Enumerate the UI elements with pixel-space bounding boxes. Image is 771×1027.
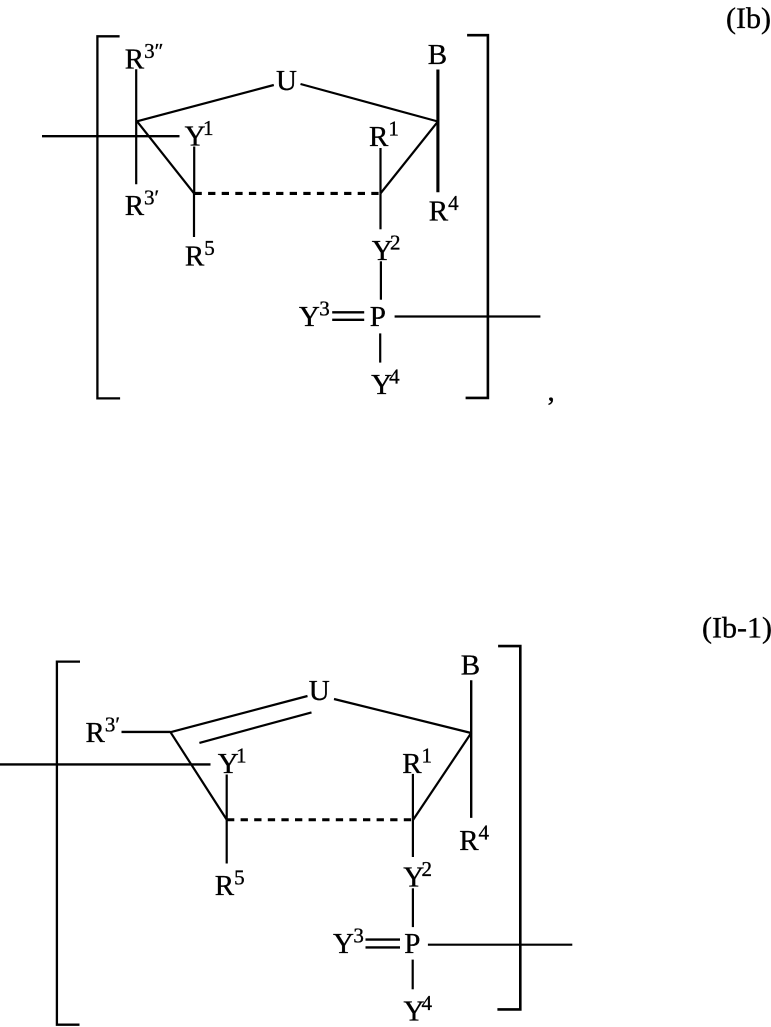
bracket right of (Ib-1) — [497, 646, 520, 1009]
bond R3'-C3alpha (Ib-1) — [122, 731, 171, 733]
svg-text:U: U — [276, 65, 297, 97]
bond Y2-P (Ib-1) — [412, 888, 414, 927]
bond C1'-C2' (Ib-1) — [413, 733, 471, 820]
bond R1-C2' (Ib) — [379, 148, 381, 193]
bond P-Y4 (Ib-1) — [412, 960, 414, 990]
bond Y1-C3' (Ib) — [193, 147, 195, 194]
bond Y2-P (Ib) — [380, 261, 382, 299]
double bond C3alpha=U outer line (Ib-1) — [171, 696, 308, 732]
bond B-C1'-R4 vertical (Ib-1) — [470, 680, 472, 818]
bond U-C1' (Ib) — [301, 84, 438, 122]
bond C2'-Y2 (Ib-1) — [412, 820, 414, 857]
bond C4'-C3' (Ib) — [137, 121, 194, 193]
svg-text:P: P — [370, 301, 386, 333]
bond C1'-C2' (Ib) — [381, 122, 438, 194]
bond Y1-C3' (Ib-1) — [226, 775, 228, 820]
bond P-Y4 (Ib) — [379, 333, 381, 362]
bond B-C1'-R4 vertical (Ib) — [436, 70, 439, 193]
double bond Y3=P (Ib) — [332, 312, 364, 320]
bond C4'-U (Ib) — [137, 85, 274, 121]
bond R1-C2' (Ib-1) — [412, 774, 414, 820]
svg-text:B: B — [428, 39, 447, 71]
bond C3alpha-C3' (Ib-1) — [171, 732, 227, 819]
wire P exit bond crossing right bracket (Ib-1) — [428, 944, 572, 946]
dashed bond C3'-C2' (Ib) — [195, 192, 381, 195]
svg-text:P: P — [404, 928, 420, 960]
bond U-C1' (Ib-1) — [334, 699, 471, 733]
bracket left of (Ib-1) — [57, 662, 80, 1025]
bond C3'-R5 (Ib) — [193, 193, 195, 237]
svg-text:,: , — [548, 376, 555, 408]
dashed bond C3'-C2' (Ib-1) — [227, 818, 413, 821]
svg-text:B: B — [461, 650, 480, 682]
wire P exit bond crossing right bracket (Ib) — [395, 315, 541, 317]
svg-text:(Ib-1): (Ib-1) — [702, 611, 771, 644]
double bond C3alpha=U inner line (Ib-1) — [199, 712, 311, 743]
bracket left of (Ib) — [97, 36, 120, 398]
wire exocyclic bond crossing left bracket (Ib-1) — [0, 763, 211, 765]
bond C2'-Y2 (Ib) — [379, 193, 381, 229]
svg-text:(Ib): (Ib) — [726, 2, 771, 35]
svg-text:U: U — [309, 675, 330, 707]
wire exocyclic bond crossing left bracket (Ib) — [42, 135, 180, 137]
double bond Y3=P (Ib-1) — [366, 940, 401, 948]
bracket right of (Ib) — [466, 35, 488, 398]
bond C3'-R5 (Ib-1) — [226, 820, 228, 864]
bond C4'-R3'' / C4'-R3' vertical (Ib) — [135, 69, 137, 184]
